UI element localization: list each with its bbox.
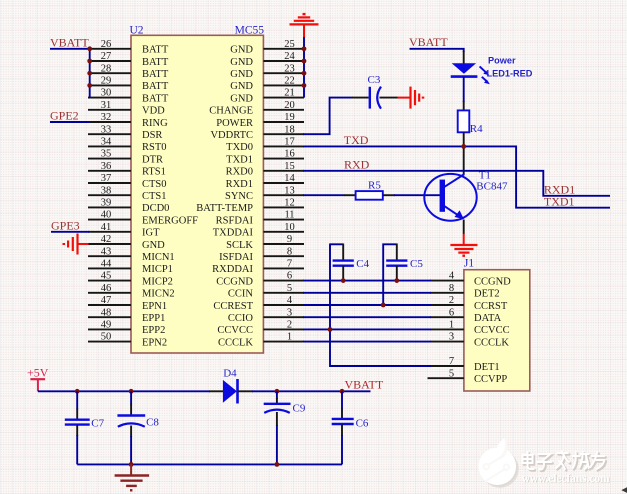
LED anode pin bbox=[463, 51, 465, 64]
LED emission arrows bbox=[480, 66, 490, 84]
wire pin13 to R5 bbox=[303, 194, 345, 196]
svg-text:TXD: TXD bbox=[344, 133, 369, 147]
svg-text:44: 44 bbox=[101, 259, 112, 270]
capacitor C4 bbox=[333, 244, 354, 282]
C8 label bbox=[146, 417, 159, 429]
svg-text:TXDDAI: TXDDAI bbox=[213, 228, 254, 239]
U2 pin 27 BATT bbox=[88, 51, 169, 68]
U2 pin 47 EPN1 bbox=[88, 295, 167, 312]
U2 pin 30 BATT bbox=[88, 88, 169, 105]
junction dot rail C8 bbox=[129, 462, 134, 467]
svg-text:C3: C3 bbox=[368, 74, 381, 86]
svg-text:50: 50 bbox=[101, 332, 112, 343]
capacitor C6 bbox=[332, 391, 354, 464]
svg-text:35: 35 bbox=[101, 149, 112, 160]
svg-text:17: 17 bbox=[284, 137, 295, 148]
svg-text:48: 48 bbox=[101, 307, 112, 318]
U2 pin 39 DCD0 bbox=[88, 198, 169, 215]
net label VBATT (bottom) bbox=[345, 378, 384, 392]
U2 pin 34 RST0 bbox=[88, 137, 167, 154]
wire VBATT horizontal to pin 26 bbox=[50, 48, 90, 50]
svg-text:1: 1 bbox=[449, 320, 454, 331]
svg-text:14: 14 bbox=[284, 173, 295, 184]
wire R5 to T1 base bbox=[394, 194, 440, 196]
wire GPE3 to pin 41 bbox=[51, 231, 89, 233]
capacitor C8 (polarized) bbox=[117, 391, 145, 464]
wire C4 top link bbox=[329, 243, 343, 245]
ground symbol right of C3 (sideways earth) bbox=[398, 87, 424, 109]
svg-text:CCIN: CCIN bbox=[228, 289, 254, 300]
svg-text:MICP1: MICP1 bbox=[142, 264, 173, 275]
svg-text:19: 19 bbox=[284, 112, 295, 123]
R5 right pin bbox=[383, 194, 395, 196]
svg-text:CCVCC: CCVCC bbox=[474, 325, 510, 336]
wire C5 vertical bbox=[383, 244, 397, 306]
U2 pin 9 SCLK bbox=[226, 234, 304, 251]
net label GPE2 bbox=[50, 109, 79, 123]
svg-text:MICP2: MICP2 bbox=[142, 276, 173, 287]
svg-text:CCGND: CCGND bbox=[216, 276, 253, 287]
+5V power symbol bbox=[27, 365, 49, 391]
svg-text:VDD: VDD bbox=[142, 106, 165, 117]
wire IC pin 1 to J1 bbox=[303, 341, 431, 343]
J1 pin 5 CCVPP bbox=[428, 368, 508, 385]
C4 label bbox=[356, 258, 369, 270]
T1 designator bbox=[479, 169, 491, 181]
svg-text:CTS0: CTS0 bbox=[142, 179, 167, 190]
svg-text:CCCLK: CCCLK bbox=[474, 337, 509, 348]
svg-text:31: 31 bbox=[101, 100, 112, 111]
svg-text:GND: GND bbox=[230, 45, 253, 56]
svg-text:DET1: DET1 bbox=[474, 362, 500, 373]
LED label LED1-RED bbox=[487, 69, 533, 79]
net label TXD bbox=[344, 133, 369, 147]
U2 pin 17 TXD0 bbox=[226, 137, 304, 154]
junction dot C4 bottom bbox=[341, 278, 346, 283]
svg-text:TXD0: TXD0 bbox=[226, 142, 253, 153]
junction dot pin 22 bbox=[302, 83, 307, 88]
svg-text:CCREST: CCREST bbox=[213, 301, 253, 312]
U2 pin 38 CTS1 bbox=[88, 185, 167, 202]
IC U2 MC55 body bbox=[131, 35, 263, 353]
svg-text:MICN1: MICN1 bbox=[142, 252, 175, 263]
U2 pin 25 GND bbox=[230, 39, 304, 56]
svg-text:2: 2 bbox=[449, 295, 454, 306]
U2 pin 29 BATT bbox=[88, 76, 169, 93]
svg-text:CCVCC: CCVCC bbox=[217, 325, 253, 336]
junction dot pin 24 bbox=[302, 59, 307, 64]
C7 label bbox=[91, 417, 104, 429]
U2 pin 33 DSR bbox=[88, 124, 162, 141]
svg-text:MC55: MC55 bbox=[235, 25, 265, 37]
svg-text:C9: C9 bbox=[293, 403, 306, 415]
net label RXD bbox=[344, 158, 370, 172]
svg-text:BATT: BATT bbox=[142, 93, 169, 104]
R5 label bbox=[368, 179, 381, 191]
D4 right pin bbox=[238, 390, 253, 392]
U2 pin 1 CCCLK bbox=[218, 332, 304, 349]
svg-text:23: 23 bbox=[284, 63, 295, 74]
wire GPE2 to pin 32 bbox=[50, 121, 89, 123]
capacitor C9 (polarized) bbox=[264, 391, 291, 464]
svg-text:C8: C8 bbox=[146, 417, 159, 429]
junction dot pin 26 bbox=[87, 46, 92, 51]
svg-text:DATA: DATA bbox=[474, 313, 502, 324]
wire LED cathode to R4 bbox=[463, 77, 465, 102]
svg-text:13: 13 bbox=[284, 185, 295, 196]
svg-text:C6: C6 bbox=[356, 418, 369, 430]
svg-text:7: 7 bbox=[287, 259, 292, 270]
T1 emitter pin bbox=[463, 220, 465, 235]
svg-text:BATT-TEMP: BATT-TEMP bbox=[196, 203, 253, 214]
U2 pin 46 MICN2 bbox=[88, 283, 175, 300]
svg-text:CTS1: CTS1 bbox=[142, 191, 167, 202]
svg-text:10: 10 bbox=[284, 222, 295, 233]
svg-text:7: 7 bbox=[449, 356, 454, 367]
svg-text:RXD1: RXD1 bbox=[544, 182, 575, 196]
svg-text:GND: GND bbox=[230, 81, 253, 92]
svg-text:GPE3: GPE3 bbox=[51, 218, 80, 232]
svg-text:32: 32 bbox=[101, 112, 112, 123]
U2 pin 4 CCREST bbox=[213, 295, 304, 312]
svg-text:CCRST: CCRST bbox=[474, 301, 508, 312]
svg-text:SCLK: SCLK bbox=[226, 240, 253, 251]
svg-text:34: 34 bbox=[101, 137, 112, 148]
svg-text:RXD: RXD bbox=[344, 158, 370, 172]
svg-text:49: 49 bbox=[101, 320, 112, 331]
U2 pin 49 EPP2 bbox=[88, 320, 165, 337]
J1 pin 3 CCCLK bbox=[430, 332, 509, 349]
svg-text:VBATT: VBATT bbox=[50, 35, 89, 49]
U2 pin 6 CCGND bbox=[216, 271, 304, 288]
svg-text:EMERGOFF: EMERGOFF bbox=[142, 215, 198, 226]
svg-text:CCCLK: CCCLK bbox=[218, 337, 253, 348]
wire IC pin 2 to J1 bbox=[303, 328, 431, 330]
svg-text:33: 33 bbox=[101, 124, 112, 135]
capacitor C3 bbox=[352, 87, 398, 109]
net label VBATT (LED branch) bbox=[409, 35, 448, 49]
U2 pin 21 GND bbox=[230, 88, 304, 105]
J1 pin 7 DET1 bbox=[430, 356, 500, 373]
J1 pin 6 DATA bbox=[430, 307, 502, 324]
U2 pin 5 CCIN bbox=[228, 283, 304, 300]
U2 pin 37 CTS0 bbox=[88, 173, 167, 190]
svg-text:RTS1: RTS1 bbox=[142, 167, 166, 178]
U2 pin 23 GND bbox=[230, 63, 304, 80]
junction dot C6 top bbox=[340, 389, 345, 394]
BC847 label bbox=[476, 180, 508, 192]
svg-text:+5V: +5V bbox=[27, 365, 49, 379]
svg-text:ISFDAI: ISFDAI bbox=[219, 252, 253, 263]
wire VBATT vertical bus pins 26-30 bbox=[89, 49, 91, 98]
svg-text:BATT: BATT bbox=[142, 45, 169, 56]
svg-text:42: 42 bbox=[101, 234, 112, 245]
svg-text:9: 9 bbox=[287, 234, 292, 245]
svg-text:BATT: BATT bbox=[142, 57, 169, 68]
J1 pin 8 DET2 bbox=[430, 283, 500, 300]
wire pin18 VDDRTC to C3 bbox=[303, 98, 353, 135]
svg-text:27: 27 bbox=[101, 51, 112, 62]
net label GPE3 bbox=[51, 218, 80, 232]
ground symbol at pin 42 (sideways earth) bbox=[64, 234, 89, 255]
wire TXD (pin17 to right, down, to TXD1) bbox=[303, 146, 610, 207]
wire VBATT rail (top right) bbox=[252, 390, 371, 392]
U2 pin 15 RXD0 bbox=[226, 161, 304, 178]
LED label Power bbox=[488, 56, 516, 66]
svg-text:38: 38 bbox=[101, 185, 112, 196]
D4 label bbox=[223, 367, 237, 379]
svg-text:46: 46 bbox=[101, 283, 112, 294]
svg-text:29: 29 bbox=[101, 76, 112, 87]
C5 label bbox=[410, 258, 423, 270]
svg-text:DET2: DET2 bbox=[474, 289, 500, 300]
svg-text:6: 6 bbox=[449, 307, 454, 318]
svg-text:EPN1: EPN1 bbox=[142, 301, 167, 312]
svg-text:37: 37 bbox=[101, 173, 112, 184]
svg-text:40: 40 bbox=[101, 210, 112, 221]
C6 label bbox=[356, 418, 369, 430]
U2 pin 19 POWER bbox=[216, 112, 304, 129]
svg-text:TXD1: TXD1 bbox=[226, 154, 253, 165]
LED LED1 (diode triangle + bar) bbox=[451, 63, 478, 76]
net label TXD1 bbox=[544, 195, 575, 209]
svg-text:VBATT: VBATT bbox=[409, 35, 448, 49]
svg-text:SYNC: SYNC bbox=[225, 191, 253, 202]
svg-text:25: 25 bbox=[284, 39, 295, 50]
U2 pin 36 RTS1 bbox=[88, 161, 166, 178]
svg-text:Power: Power bbox=[488, 56, 516, 66]
svg-text:DCD0: DCD0 bbox=[142, 203, 169, 214]
svg-text:R5: R5 bbox=[368, 179, 381, 191]
svg-text:8: 8 bbox=[449, 283, 454, 294]
svg-text:11: 11 bbox=[284, 210, 294, 221]
svg-text:VBATT: VBATT bbox=[345, 378, 384, 392]
wire IC pin 5 to J1 bbox=[303, 292, 431, 294]
junction dot DET1/CCVCC bbox=[328, 327, 333, 332]
J1 designator bbox=[464, 258, 474, 270]
svg-text:3: 3 bbox=[449, 332, 454, 343]
junction dot pin 23 bbox=[302, 71, 307, 76]
J1 pin 1 CCVCC bbox=[430, 320, 510, 337]
junction dot C5 left column bbox=[381, 303, 386, 308]
U2 designator label bbox=[130, 25, 144, 37]
svg-text:RXD1: RXD1 bbox=[226, 179, 253, 190]
U2 pin 50 EPN2 bbox=[88, 332, 167, 349]
svg-text:45: 45 bbox=[101, 271, 112, 282]
svg-text:C4: C4 bbox=[356, 258, 369, 270]
svg-text:EPP2: EPP2 bbox=[142, 325, 165, 336]
U2 pin 18 VDDRTC bbox=[210, 124, 304, 141]
svg-text:5: 5 bbox=[287, 283, 292, 294]
diode D4 bbox=[223, 379, 238, 404]
U2 pin 32 RING bbox=[88, 112, 168, 129]
resistor R5 bbox=[356, 191, 383, 200]
U2 pin 10 TXDDAI bbox=[213, 222, 304, 239]
R4 top pin bbox=[463, 101, 465, 110]
junction dot TXD / collector bbox=[461, 144, 466, 149]
watermark logo (elecfans) bbox=[479, 439, 519, 488]
U2 pin 3 CCIO bbox=[228, 307, 304, 324]
U2 pin 14 RXD1 bbox=[226, 173, 304, 190]
junction dot rail C9 bbox=[275, 462, 280, 467]
svg-text:BC847: BC847 bbox=[476, 180, 508, 192]
U2 pin 31 VDD bbox=[88, 100, 165, 117]
junction dot C9 top bbox=[275, 389, 280, 394]
ground symbol below T1 (earth) bbox=[450, 234, 477, 256]
junction dot pin 28 bbox=[87, 71, 92, 76]
svg-text:22: 22 bbox=[284, 76, 295, 87]
U2 pin 45 MICP2 bbox=[88, 271, 173, 288]
wire DET1 vertical + horizontal to J1 pin 7 bbox=[330, 244, 431, 366]
svg-text:3: 3 bbox=[287, 307, 292, 318]
U2 pin 43 MICN1 bbox=[88, 246, 175, 263]
U2 pin 41 IGT bbox=[88, 222, 160, 239]
scroll arrow artifact right edge bbox=[621, 487, 627, 493]
svg-text:26: 26 bbox=[101, 39, 112, 50]
svg-text:GND: GND bbox=[230, 69, 253, 80]
C3 value label bbox=[368, 74, 381, 86]
wire RXD (pin15 to right, down, to RXD1) bbox=[303, 171, 610, 196]
capacitor C5 bbox=[386, 244, 407, 282]
svg-text:30: 30 bbox=[101, 88, 112, 99]
R4 bottom pin / collector column bbox=[463, 132, 465, 174]
svg-text:41: 41 bbox=[101, 222, 112, 233]
connector J1 body bbox=[464, 270, 530, 391]
capacitor C7 bbox=[65, 391, 90, 464]
U2 pin 40 EMERGOFF bbox=[88, 210, 198, 227]
U2 pin 2 CCVCC bbox=[217, 320, 304, 337]
svg-text:EPP1: EPP1 bbox=[142, 313, 165, 324]
R4 label bbox=[470, 123, 483, 135]
svg-text:GND: GND bbox=[142, 240, 165, 251]
svg-text:BATT: BATT bbox=[142, 69, 169, 80]
wire IC pin 6 to J1 bbox=[303, 280, 431, 282]
svg-text:18: 18 bbox=[284, 124, 295, 135]
junction dot pin 27 bbox=[87, 59, 92, 64]
svg-text:8: 8 bbox=[287, 246, 292, 257]
svg-text:J1: J1 bbox=[464, 258, 474, 270]
D4 left pin bbox=[209, 390, 224, 392]
J1 pin 2 CCRST bbox=[430, 295, 508, 312]
U2 pin 20 CHANGE bbox=[209, 100, 304, 117]
svg-text:5: 5 bbox=[449, 368, 454, 379]
net label VBATT (left) bbox=[50, 35, 89, 49]
U2 pin 11 RSFDAI bbox=[216, 210, 304, 227]
svg-text:U2: U2 bbox=[130, 25, 144, 37]
wire IC pin 4 to J1 bbox=[303, 304, 431, 306]
svg-text:24: 24 bbox=[284, 51, 295, 62]
svg-text:RXDDAI: RXDDAI bbox=[212, 264, 253, 275]
svg-text:CCGND: CCGND bbox=[474, 276, 511, 287]
ground symbol bottom (earth, dark) bbox=[115, 464, 150, 490]
svg-text:20: 20 bbox=[284, 100, 295, 111]
wire ground rail (bottom) bbox=[77, 463, 342, 465]
wire IC pin 3 to J1 bbox=[303, 316, 431, 318]
junction dot C5 bottom bbox=[394, 278, 399, 283]
svg-text:6: 6 bbox=[287, 271, 292, 282]
wire VBATT to LED anode bbox=[410, 49, 464, 52]
junction dot C8 top bbox=[129, 389, 134, 394]
U2 pin 35 DTR bbox=[88, 149, 163, 166]
U2 pin 13 SYNC bbox=[225, 185, 304, 202]
svg-text:CHANGE: CHANGE bbox=[209, 106, 253, 117]
svg-text:GND: GND bbox=[230, 93, 253, 104]
svg-text:R4: R4 bbox=[470, 123, 483, 135]
transistor T1 BC847 bbox=[424, 174, 476, 221]
resistor R4 bbox=[458, 110, 470, 132]
svg-text:D4: D4 bbox=[223, 367, 237, 379]
svg-text:DTR: DTR bbox=[142, 154, 163, 165]
svg-text:RST0: RST0 bbox=[142, 142, 167, 153]
svg-text:4: 4 bbox=[287, 295, 293, 306]
U2 pin 16 TXD1 bbox=[226, 149, 304, 166]
svg-text:15: 15 bbox=[284, 161, 295, 172]
svg-text:RXD0: RXD0 bbox=[226, 167, 253, 178]
junction dot pin 25 bbox=[302, 46, 307, 51]
svg-text:POWER: POWER bbox=[216, 118, 253, 129]
MC55 part label bbox=[235, 25, 265, 37]
svg-text:21: 21 bbox=[284, 88, 295, 99]
J1 pin 4 CCGND bbox=[430, 271, 511, 288]
watermark url www.elecfans.com bbox=[522, 473, 611, 486]
watermark text dianzifashaoyou (hand-drawn strokes) bbox=[524, 453, 606, 472]
wire vertical bus pins 21-25 to ground bbox=[303, 37, 305, 98]
svg-text:DSR: DSR bbox=[142, 130, 162, 141]
U2 pin 24 GND bbox=[230, 51, 304, 68]
U2 pin 44 MICP1 bbox=[88, 259, 173, 276]
svg-text:TXD1: TXD1 bbox=[544, 195, 575, 209]
U2 pin 7 RXDDAI bbox=[212, 259, 304, 276]
svg-text:LED1-RED: LED1-RED bbox=[487, 69, 533, 79]
svg-text:RING: RING bbox=[142, 118, 168, 129]
svg-text:RSFDAI: RSFDAI bbox=[216, 215, 254, 226]
wire +5V rail (top) bbox=[38, 390, 210, 392]
C9 label bbox=[293, 403, 306, 415]
svg-text:C5: C5 bbox=[410, 258, 423, 270]
svg-text:2: 2 bbox=[287, 320, 292, 331]
svg-text:www.elecfans.com: www.elecfans.com bbox=[522, 473, 610, 485]
svg-text:28: 28 bbox=[101, 63, 112, 74]
svg-text:1: 1 bbox=[287, 332, 292, 343]
svg-text:39: 39 bbox=[101, 198, 112, 209]
R5 left pin bbox=[344, 194, 356, 196]
U2 pin 8 ISFDAI bbox=[219, 246, 304, 263]
ground symbol top (earth, above pin 25) bbox=[290, 14, 319, 37]
net label RXD1 bbox=[544, 182, 575, 196]
svg-text:C7: C7 bbox=[91, 417, 104, 429]
svg-text:4: 4 bbox=[449, 271, 455, 282]
svg-text:BATT: BATT bbox=[142, 81, 169, 92]
U2 pin 28 BATT bbox=[88, 63, 169, 80]
svg-text:43: 43 bbox=[101, 246, 112, 257]
svg-text:GPE2: GPE2 bbox=[50, 109, 79, 123]
U2 pin 48 EPP1 bbox=[88, 307, 165, 324]
svg-text:CCVPP: CCVPP bbox=[474, 374, 507, 385]
svg-text:47: 47 bbox=[101, 295, 112, 306]
svg-text:12: 12 bbox=[284, 198, 295, 209]
U2 pin 12 BATT-TEMP bbox=[196, 198, 304, 215]
svg-text:MICN2: MICN2 bbox=[142, 289, 175, 300]
U2 pin 22 GND bbox=[230, 76, 304, 93]
svg-text:16: 16 bbox=[284, 149, 295, 160]
svg-text:IGT: IGT bbox=[142, 228, 160, 239]
svg-text:GND: GND bbox=[230, 57, 253, 68]
U2 pin 42 GND bbox=[88, 234, 165, 251]
svg-text:EPN2: EPN2 bbox=[142, 337, 167, 348]
svg-text:36: 36 bbox=[101, 161, 112, 172]
junction dot pin 29 bbox=[87, 83, 92, 88]
junction dot C7 bbox=[75, 389, 80, 394]
